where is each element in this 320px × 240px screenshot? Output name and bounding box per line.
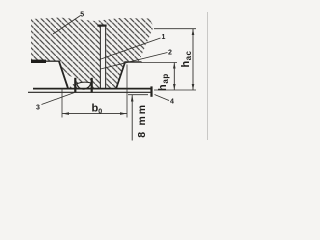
dimension 8mm extension [128, 94, 148, 96]
dimension h_ac top extension [154, 28, 196, 30]
sheet 4 bottom surface [28, 91, 152, 93]
weld pool 3 (bead lens) [77, 82, 91, 89]
dimension b0 line [62, 113, 127, 115]
die right wall of protrusion [116, 62, 125, 89]
die bottom-left thick edge segment [31, 60, 46, 63]
8mm arrow [131, 95, 134, 102]
dimension b0 extension right [126, 65, 128, 118]
h_ap arrow top [173, 63, 176, 69]
leader for label 2 [101, 53, 168, 70]
h_ac arrow bottom [192, 84, 195, 90]
leader for label 5 [53, 16, 81, 35]
leader for label 4 [155, 95, 170, 101]
wire top cap [97, 25, 106, 27]
dimension 8mm line [131, 95, 133, 141]
svg-text:3: 3 [36, 105, 40, 112]
die bottom-right edge [125, 61, 142, 63]
shared bottom extension for h dims [154, 89, 196, 91]
wire channel (white strip) [100, 25, 106, 89]
svg-text:2: 2 [168, 50, 172, 57]
svg-text:4: 4 [170, 99, 174, 106]
die left wall of protrusion [59, 61, 68, 89]
dimension h_ac line [192, 29, 194, 90]
sheet right end [150, 86, 152, 96]
page fold edge [207, 12, 209, 140]
svg-text:8 mm: 8 mm [136, 103, 148, 138]
sheet 4 top surface [33, 88, 152, 90]
wedge cavity (flux funnel) [64, 74, 76, 88]
die bottom-left edge [31, 60, 59, 62]
pin bar right [91, 78, 93, 93]
svg-text:1: 1 [162, 34, 166, 41]
dimension b0 extension left [61, 89, 63, 118]
b0 arrow right [120, 112, 127, 115]
die block 5 (hatched) [31, 18, 154, 89]
leader for label 3 [42, 93, 75, 105]
leader for label 1 [100, 38, 161, 60]
svg-text:5: 5 [80, 12, 84, 19]
h_ac arrow top [192, 29, 195, 35]
b0 arrow left [62, 112, 69, 115]
h_ap arrow bottom [173, 84, 176, 90]
dimension h_ap line [173, 63, 175, 91]
dimension h_ap top extension [141, 62, 177, 64]
pin bar left [74, 78, 76, 93]
wire 1 (electrode) edges [99, 26, 101, 89]
